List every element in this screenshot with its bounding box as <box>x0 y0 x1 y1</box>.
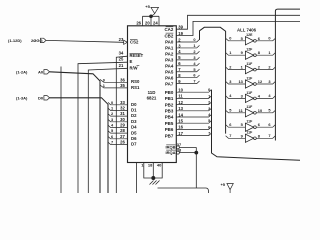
wire: +5 top rail <box>143 15 160 17</box>
svg-text:7: 7 <box>229 133 231 138</box>
svg-text:36: 36 <box>120 77 125 82</box>
svg-text:PB4: PB4 <box>165 115 174 120</box>
svg-text:11: 11 <box>178 94 183 99</box>
svg-text:CS2: CS2 <box>130 40 139 45</box>
bus branch 7 to D7 <box>108 142 128 144</box>
svg-text:PB2: PB2 <box>165 102 174 107</box>
svg-text:D0: D0 <box>131 102 137 107</box>
wire PA3 to bus <box>176 57 199 60</box>
wire PB5 to bus <box>176 121 211 124</box>
wire ground stubs pins 1 18 40 <box>144 163 162 179</box>
svg-text:32: 32 <box>120 105 125 110</box>
svg-text:7: 7 <box>111 139 113 144</box>
wire A0 address bus <box>50 72 101 193</box>
PB bus down and off right sheet edge <box>212 90 301 161</box>
svg-text:PA5: PA5 <box>165 69 174 74</box>
svg-text:29: 29 <box>120 122 125 127</box>
svg-text:0: 0 <box>193 37 195 42</box>
svg-text:18: 18 <box>148 162 153 167</box>
svg-text:25: 25 <box>119 56 124 61</box>
wire PA6 to bus <box>176 75 199 78</box>
svg-text:+5: +5 <box>145 4 150 9</box>
svg-text:19: 19 <box>178 31 183 36</box>
svg-text:PA2: PA2 <box>165 52 174 57</box>
svg-text:0: 0 <box>111 100 113 105</box>
svg-text:R/W: R/W <box>130 65 138 70</box>
wire IRQ net down <box>195 147 197 188</box>
wire CA2 to right edge <box>176 15 300 29</box>
svg-text:27: 27 <box>120 134 125 139</box>
svg-text:17: 17 <box>178 131 183 136</box>
wire RESET pin 34 down off sheet <box>116 56 127 193</box>
svg-text:11F: 11F <box>246 76 253 80</box>
bubble IRQB <box>176 146 179 149</box>
inverter gate 11F #3 <box>226 81 246 84</box>
bus branch 0 to D0 <box>108 102 128 104</box>
inverter gate 11F #2 <box>226 67 246 70</box>
svg-text:0: 0 <box>103 77 105 82</box>
svg-text:20: 20 <box>145 21 150 26</box>
bus branch 2 to D2 <box>108 114 128 116</box>
wire PB2 to bus <box>176 102 211 105</box>
svg-text:15: 15 <box>178 119 183 124</box>
svg-text:34: 34 <box>119 50 124 55</box>
wire bottom off sheet <box>158 188 209 193</box>
svg-text:33: 33 <box>120 100 125 105</box>
svg-text:11F: 11F <box>246 105 253 109</box>
svg-text:RESET: RESET <box>130 53 144 58</box>
svg-text:24: 24 <box>153 21 158 26</box>
svg-text:D7: D7 <box>131 142 137 147</box>
wire E pin 25 down off sheet <box>78 62 128 193</box>
wire PB0 to bus <box>176 90 211 93</box>
svg-text:PB0: PB0 <box>165 90 174 95</box>
wire: stub to pin 20 <box>150 16 152 26</box>
svg-text:0: 0 <box>268 36 270 41</box>
svg-text:(1-3A): (1-3A) <box>16 95 28 100</box>
wire IRQB <box>179 146 196 148</box>
svg-text:PA0: PA0 <box>165 40 174 45</box>
wire PB4 to bus <box>176 114 211 117</box>
svg-text:10: 10 <box>258 108 262 113</box>
bus branch 5 to D5 <box>108 131 128 133</box>
wire stub chip bottom left off sheet <box>136 163 138 194</box>
svg-text:40: 40 <box>157 162 162 167</box>
wire: stub to pin 26 <box>142 16 144 26</box>
svg-text:11F: 11F <box>246 62 253 66</box>
svg-text:11F: 11F <box>246 91 253 95</box>
inverter gate 12E #0 <box>226 38 246 41</box>
wire PA1 to bus <box>176 45 199 48</box>
svg-text:PB1: PB1 <box>165 96 174 101</box>
wire PA5 to bus <box>176 69 199 72</box>
svg-text:7: 7 <box>268 133 270 138</box>
wire 2#GG to CS2 pin 23 <box>46 40 124 42</box>
svg-text:ALL 7406: ALL 7406 <box>237 27 257 32</box>
svg-text:26: 26 <box>120 139 125 144</box>
svg-text:D6: D6 <box>131 136 137 141</box>
svg-text:PA3: PA3 <box>165 58 174 63</box>
svg-text:IRQA: IRQA <box>166 150 176 155</box>
svg-text:D5: D5 <box>131 130 137 135</box>
svg-text:31: 31 <box>120 111 125 116</box>
svg-text:12: 12 <box>178 100 183 105</box>
bubble IRQA <box>176 151 179 154</box>
wire PB6 to bus <box>176 127 211 130</box>
inverter gate 11F #5 <box>226 110 246 113</box>
svg-text:PA7: PA7 <box>165 81 174 86</box>
svg-text:11F: 11F <box>246 131 253 135</box>
bus branch 0 to RS0 <box>100 79 128 82</box>
svg-text:PA4: PA4 <box>165 64 174 69</box>
wire PA0 to bus <box>176 39 199 42</box>
svg-text:0: 0 <box>208 87 210 92</box>
svg-text:16: 16 <box>178 125 183 130</box>
svg-text:28: 28 <box>120 128 125 133</box>
wire IRQA <box>179 152 196 154</box>
svg-text:13: 13 <box>178 106 183 111</box>
input arrow at CS2 <box>124 40 128 44</box>
svg-text:12F: 12F <box>246 48 253 52</box>
inverter gate 11F #7 <box>226 136 246 139</box>
junction dot ground <box>151 176 155 180</box>
svg-text:CA2: CA2 <box>165 27 174 32</box>
bus branch 6 to D6 <box>108 136 128 138</box>
svg-text:6821: 6821 <box>147 96 157 101</box>
svg-text:PA6: PA6 <box>165 75 174 80</box>
bus branch 4 to D4 <box>108 125 128 127</box>
wire PB7 to bus <box>176 133 211 136</box>
svg-text:11F: 11F <box>246 120 253 124</box>
wire PA4 to bus <box>176 63 199 66</box>
wire vertical net at x61 <box>60 67 62 194</box>
svg-text:30: 30 <box>120 117 125 122</box>
svg-text:D1: D1 <box>131 108 137 113</box>
IC U11D 6821 PIA body <box>128 26 177 163</box>
junction dot IRQ net <box>194 151 198 155</box>
svg-text:D4: D4 <box>131 125 137 130</box>
inverter gate 11F #4 <box>226 96 246 99</box>
svg-text:7: 7 <box>193 79 195 84</box>
svg-text:E: E <box>130 59 133 64</box>
svg-text:0: 0 <box>229 36 231 41</box>
wire PA2 to bus <box>176 51 199 54</box>
bus branch 3 to D3 <box>108 119 128 121</box>
svg-text:CB2: CB2 <box>165 33 174 38</box>
svg-text:RS0: RS0 <box>131 79 140 84</box>
svg-text:D3: D3 <box>131 119 137 124</box>
svg-text:D0: D0 <box>38 95 44 100</box>
svg-text:21: 21 <box>119 63 124 68</box>
svg-text:11D: 11D <box>148 90 156 95</box>
wire PA7 to bus <box>176 81 199 84</box>
inverter gate 11F #6 <box>226 125 246 128</box>
wire R/W pin 21 down off sheet <box>88 68 127 193</box>
svg-text:PB7: PB7 <box>165 133 174 138</box>
svg-text:A0: A0 <box>38 69 44 74</box>
PA bus arch to gate input bus <box>200 27 226 133</box>
bus branch 1 to D1 <box>108 108 128 110</box>
wire D0 data bus <box>50 98 109 193</box>
wire CB2 to right edge <box>176 21 300 35</box>
svg-text:23: 23 <box>119 37 124 42</box>
inverter gate 12F #1 <box>226 53 246 56</box>
ground chassis symbol <box>150 181 154 185</box>
junction dot on +5 rail <box>149 14 153 18</box>
bus branch 1 to RS1 <box>100 85 128 88</box>
wire PB1 to bus <box>176 96 211 99</box>
svg-text:PB3: PB3 <box>165 109 174 114</box>
svg-text:D2: D2 <box>131 113 137 118</box>
svg-text:14: 14 <box>178 112 183 117</box>
svg-text:26: 26 <box>136 21 141 26</box>
svg-text:PA1: PA1 <box>165 46 174 51</box>
svg-text:39: 39 <box>178 25 183 30</box>
svg-text:10: 10 <box>178 88 183 93</box>
svg-text:PB5: PB5 <box>165 121 174 126</box>
svg-text:+5: +5 <box>220 182 225 187</box>
gate output bus to right edge <box>275 9 300 140</box>
svg-text:35: 35 <box>120 83 125 88</box>
wire PB3 to bus <box>176 108 211 111</box>
svg-text:(1-12D): (1-12D) <box>8 38 22 43</box>
svg-text:7: 7 <box>208 131 210 136</box>
wire: stub to pin 24 <box>158 16 160 26</box>
svg-text:RS1: RS1 <box>131 85 140 90</box>
svg-text:12E: 12E <box>246 33 253 37</box>
svg-text:PB6: PB6 <box>165 127 174 132</box>
svg-text:(1-2A): (1-2A) <box>16 69 28 74</box>
